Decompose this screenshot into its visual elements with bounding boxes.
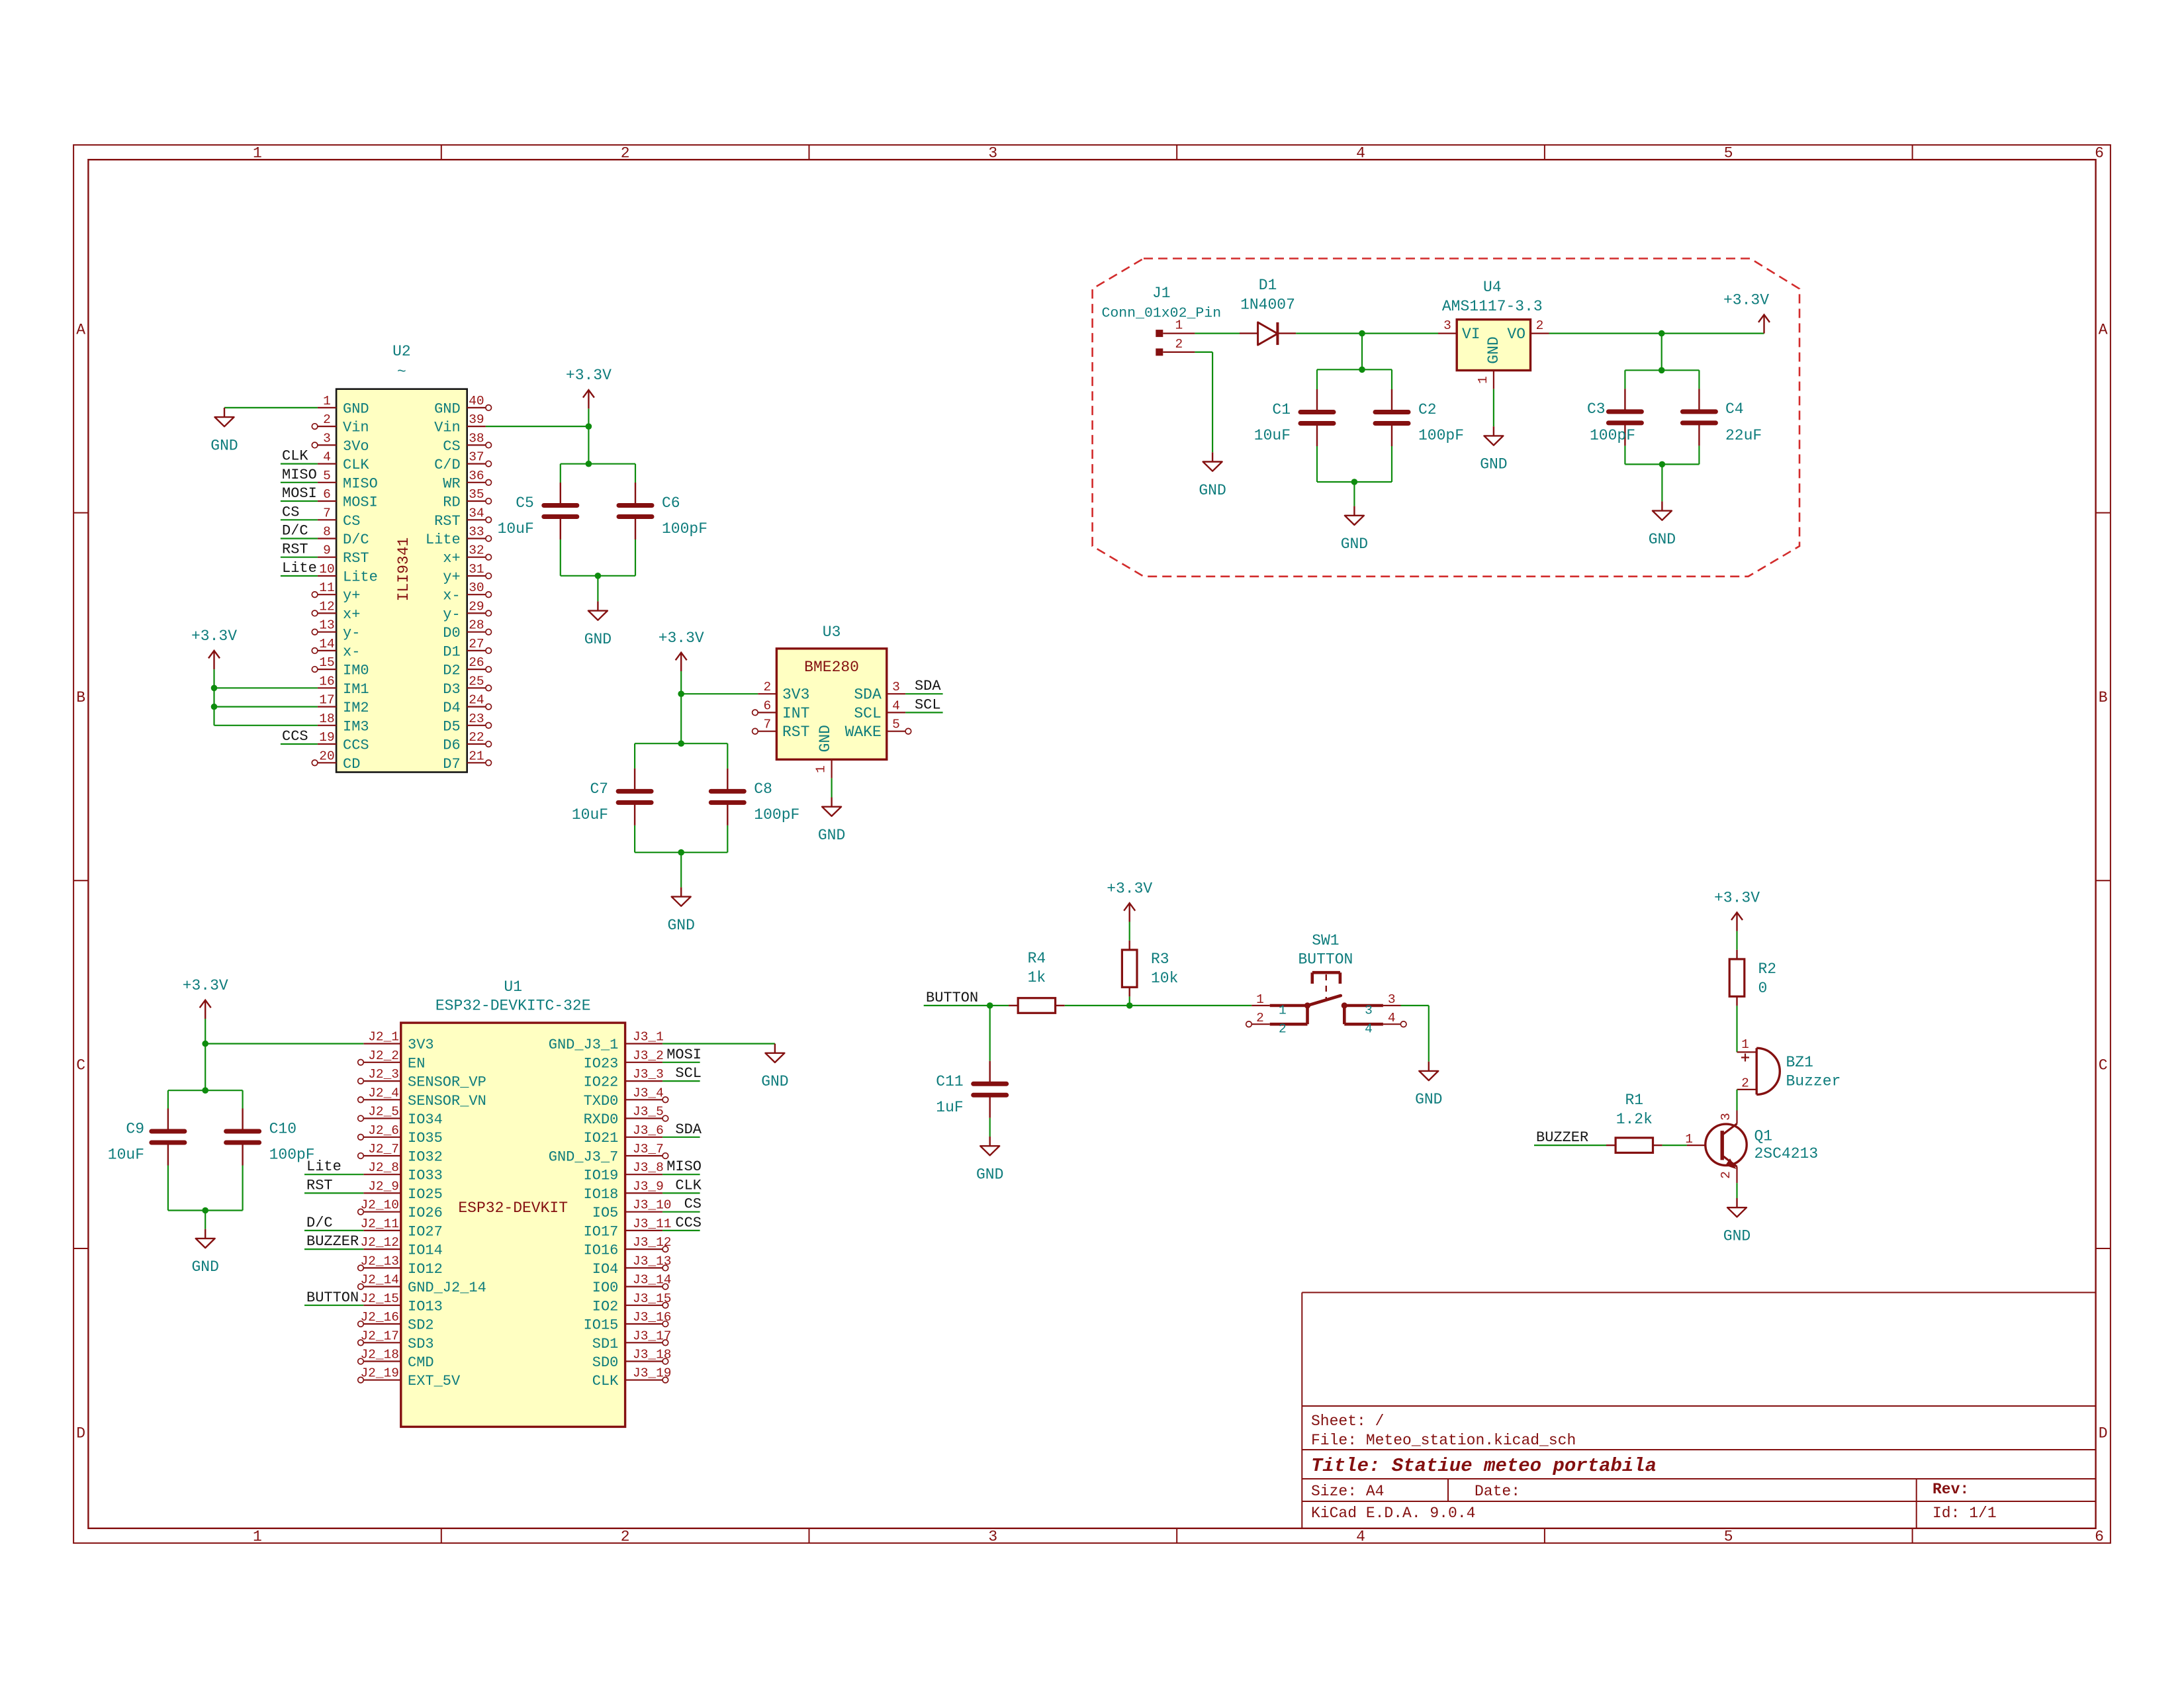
net label CLK — [282, 448, 308, 465]
svg-text:CD: CD — [343, 756, 360, 773]
U2 pin 22 D6 — [443, 730, 491, 754]
svg-text:4: 4 — [1365, 1022, 1373, 1037]
C8 reference text — [754, 780, 772, 798]
svg-text:INT: INT — [782, 705, 809, 722]
C3 reference text — [1587, 400, 1606, 418]
U4 pin 3 VI — [1438, 318, 1457, 334]
wire IM3 — [214, 688, 318, 726]
svg-text:1: 1 — [253, 1528, 262, 1546]
svg-text:GND: GND — [976, 1166, 1003, 1184]
svg-text:0: 0 — [1758, 980, 1768, 997]
svg-text:MISO: MISO — [343, 475, 378, 492]
wire BUZZER label stub — [1534, 1145, 1606, 1146]
C4 reference text — [1725, 400, 1744, 418]
U2 pin 5 MISO — [318, 469, 378, 492]
R4 reference text — [1028, 950, 1046, 967]
wire D1 to U4 — [1296, 333, 1438, 334]
svg-text:CLK: CLK — [592, 1373, 619, 1389]
wire C4 top leg — [1698, 370, 1700, 389]
wire R2 top — [1736, 931, 1737, 950]
svg-text:10uF: 10uF — [1254, 427, 1291, 444]
svg-text:IO34: IO34 — [408, 1111, 443, 1128]
svg-text:30: 30 — [469, 581, 484, 595]
svg-text:IO22: IO22 — [584, 1074, 619, 1091]
svg-text:7: 7 — [323, 506, 331, 520]
BZ1 reference text — [1786, 1054, 1813, 1071]
svg-text:3: 3 — [988, 145, 997, 162]
svg-text:Lite: Lite — [426, 532, 461, 548]
wire J1 pin2 to GND — [1195, 352, 1212, 452]
U2 pin 10 Lite — [318, 562, 378, 586]
svg-text:28: 28 — [469, 618, 484, 633]
junction C9C10 bottom — [202, 1207, 208, 1214]
svg-text:J3_6: J3_6 — [633, 1123, 664, 1138]
resistor R4 — [1009, 998, 1065, 1013]
svg-text:3: 3 — [1365, 1004, 1373, 1018]
capacitor C2 — [1375, 389, 1408, 446]
svg-text:J2_8: J2_8 — [368, 1160, 399, 1175]
resistor R3 — [1122, 941, 1137, 997]
U1 pin J3_3 IO22 — [584, 1067, 664, 1091]
svg-text:IM1: IM1 — [343, 681, 369, 698]
svg-text:SCL: SCL — [675, 1065, 702, 1082]
switch SW1 — [1246, 972, 1406, 1027]
power symbol +3.3V U1 — [183, 977, 228, 1019]
svg-text:1: 1 — [1741, 1037, 1749, 1052]
wire C5C6 top rail — [561, 463, 635, 465]
U2 pin 14 x- — [312, 637, 360, 661]
svg-text:BUTTON: BUTTON — [306, 1289, 359, 1306]
svg-text:40: 40 — [469, 394, 484, 408]
U1 pin J3_9 IO18 — [584, 1179, 664, 1203]
svg-text:3V3: 3V3 — [782, 686, 809, 704]
svg-text:SDA: SDA — [854, 686, 882, 704]
svg-text:CCS: CCS — [343, 737, 369, 754]
svg-text:CLK: CLK — [343, 457, 369, 473]
svg-text:~: ~ — [397, 363, 406, 381]
svg-text:y-: y- — [343, 625, 360, 641]
svg-text:GND: GND — [343, 400, 369, 417]
U1 pin J2_11 IO27 — [360, 1217, 442, 1241]
U2 pin 19 CCS — [318, 730, 369, 754]
net label CCS U1 — [675, 1215, 702, 1231]
junction R3 node — [1126, 1002, 1133, 1009]
wire C9C10 to GND — [205, 1211, 206, 1229]
svg-text:GND: GND — [434, 400, 461, 417]
U1 pin J3_7 GND_J3_7 — [549, 1142, 668, 1166]
wire C3C4 top rail — [1625, 369, 1699, 371]
svg-text:TXD0: TXD0 — [584, 1093, 619, 1109]
capacitor C7 — [618, 769, 651, 825]
svg-text:J2_2: J2_2 — [368, 1049, 399, 1063]
svg-text:SENSOR_VP: SENSOR_VP — [408, 1074, 486, 1091]
U3 pin 4 SCL — [854, 698, 905, 722]
capacitor C8 — [711, 769, 744, 825]
svg-text:18: 18 — [319, 712, 334, 726]
svg-text:10uF: 10uF — [498, 520, 534, 538]
svg-text:J2_4: J2_4 — [368, 1086, 399, 1100]
wire C11 top — [989, 1006, 991, 1061]
svg-text:U4: U4 — [1483, 279, 1502, 296]
U2 pin 12 x+ — [312, 599, 360, 623]
wire C7C8 top rail — [635, 743, 727, 744]
net label MISO U1 — [666, 1158, 702, 1175]
BZ1 pin numbers — [1741, 1037, 1749, 1091]
svg-text:SCL: SCL — [854, 705, 881, 722]
wire 3V3 down to C7C8 — [680, 694, 682, 743]
svg-text:23: 23 — [469, 712, 484, 726]
svg-text:39: 39 — [469, 412, 484, 427]
svg-text:6: 6 — [2095, 1528, 2104, 1546]
svg-text:Rev:: Rev: — [1933, 1481, 1969, 1498]
net label SCL U3 — [915, 696, 941, 713]
svg-text:R1: R1 — [1625, 1092, 1643, 1109]
svg-text:20: 20 — [319, 749, 334, 763]
net label D/C U1 — [306, 1215, 333, 1231]
svg-text:WR: WR — [443, 475, 460, 492]
SW1 reference text — [1312, 932, 1339, 949]
svg-text:D5: D5 — [443, 718, 460, 735]
svg-text:A: A — [2099, 321, 2108, 338]
U2 pin 1 GND — [318, 394, 369, 418]
wire C2 bottom leg — [1391, 446, 1392, 482]
junction Vin node — [586, 423, 592, 430]
ground C1C2 — [1341, 506, 1368, 553]
U1 pin J2_12 IO14 — [360, 1235, 442, 1259]
U2 pin 18 IM3 — [318, 712, 369, 735]
svg-text:IO32: IO32 — [408, 1149, 443, 1166]
wire C7C8 to GND — [680, 853, 682, 888]
svg-text:KiCad E.D.A. 9.0.4: KiCad E.D.A. 9.0.4 — [1311, 1505, 1475, 1522]
svg-text:CS: CS — [282, 504, 299, 520]
svg-text:RST: RST — [434, 513, 461, 530]
svg-text:+3.3V: +3.3V — [1723, 291, 1769, 308]
wire U4 pin1 to GND — [1493, 389, 1494, 427]
svg-text:U1: U1 — [504, 978, 522, 996]
svg-text:GND: GND — [818, 827, 845, 844]
svg-text:EXT_5V: EXT_5V — [408, 1373, 461, 1389]
wire label Lite U1 J2_8 — [304, 1174, 363, 1175]
svg-text:B: B — [2099, 689, 2108, 706]
net label MOSI — [282, 485, 317, 502]
svg-text:D/C: D/C — [306, 1215, 333, 1231]
svg-text:J2_10: J2_10 — [360, 1198, 399, 1213]
C11 value text — [936, 1099, 963, 1116]
svg-text:CS: CS — [684, 1196, 702, 1213]
U3 pin 3 SDA — [854, 680, 905, 704]
resistor R2 — [1729, 950, 1745, 1006]
power supply section dashed outline — [1093, 259, 1799, 577]
wire label MOSI U1 J3_2 — [662, 1062, 700, 1063]
svg-text:5: 5 — [1724, 145, 1733, 162]
svg-text:IO14: IO14 — [408, 1243, 443, 1259]
svg-text:D: D — [76, 1425, 85, 1442]
capacitor C6 — [619, 483, 652, 539]
title block kicad text — [1311, 1505, 1475, 1522]
svg-text:J2_9: J2_9 — [368, 1179, 399, 1194]
U1 pin J3_16 IO15 — [584, 1310, 672, 1334]
Q1 pin numbers — [1685, 1113, 1733, 1179]
svg-text:2: 2 — [1279, 1022, 1287, 1037]
junction C1C2 bottom rail — [1351, 479, 1358, 485]
svg-text:6: 6 — [763, 698, 771, 713]
svg-text:SDA: SDA — [675, 1121, 702, 1138]
SW1 pin names — [1279, 1004, 1373, 1037]
svg-text:J2_3: J2_3 — [368, 1067, 399, 1082]
svg-text:26: 26 — [469, 655, 484, 670]
svg-text:D1: D1 — [443, 643, 460, 660]
net label D/C — [282, 523, 308, 539]
svg-text:2: 2 — [1741, 1076, 1749, 1091]
svg-text:4: 4 — [1388, 1011, 1396, 1025]
svg-text:GND: GND — [1723, 1228, 1751, 1245]
Q1 value text — [1754, 1145, 1819, 1162]
connector J1 — [1156, 318, 1195, 356]
svg-text:1: 1 — [1476, 376, 1490, 384]
svg-text:32: 32 — [469, 543, 484, 558]
svg-text:3: 3 — [1388, 992, 1396, 1007]
wire U4 VO to +3.3V — [1549, 333, 1764, 334]
net label Lite — [282, 560, 317, 577]
svg-text:+3.3V: +3.3V — [191, 628, 237, 645]
U3 reference text — [823, 624, 841, 641]
title block id text — [1933, 1505, 1997, 1522]
U2 pin 9 RST — [318, 543, 369, 567]
svg-text:GND: GND — [584, 631, 612, 648]
U2 pin 37 C/D — [434, 450, 491, 474]
U2 pin 15 IM0 — [312, 655, 369, 679]
svg-text:1k: 1k — [1028, 969, 1046, 986]
power symbol +3.3V U3 — [659, 630, 704, 671]
U2 pin 35 RD — [443, 487, 491, 511]
U3 GND pin name rotated — [817, 725, 834, 752]
svg-text:1N4007: 1N4007 — [1240, 297, 1295, 314]
U4 value text — [1442, 298, 1543, 315]
U2 pin 21 D7 — [443, 749, 491, 773]
svg-text:J3_5: J3_5 — [633, 1105, 664, 1119]
ground C7C8 — [667, 887, 694, 934]
U3 pin 5 WAKE — [845, 718, 911, 741]
U3 pin 1 GND — [814, 759, 832, 778]
svg-text:J2_5: J2_5 — [368, 1105, 399, 1119]
U1 pin J3_19 CLK — [592, 1366, 672, 1390]
power symbol +3.3V R2 — [1714, 889, 1760, 931]
wire C3C4 to GND — [1661, 464, 1662, 501]
svg-text:IM3: IM3 — [343, 718, 369, 735]
wire C9 bottom leg — [167, 1166, 169, 1211]
wire label RST U1 J2_9 — [304, 1192, 363, 1194]
svg-text:MOSI: MOSI — [343, 494, 378, 511]
svg-text:D2: D2 — [443, 663, 460, 679]
title block title text — [1311, 1455, 1657, 1477]
D1 value text — [1240, 297, 1295, 314]
microcontroller U1 body — [401, 1023, 625, 1427]
svg-text:4: 4 — [323, 450, 331, 465]
svg-text:IO25: IO25 — [408, 1186, 443, 1203]
svg-text:37: 37 — [469, 450, 484, 465]
wire U1 GND_J3_1 — [662, 1043, 775, 1044]
wire C10 bottom leg — [242, 1166, 244, 1211]
svg-text:Conn_01x02_Pin: Conn_01x02_Pin — [1101, 306, 1221, 322]
C3 value text — [1590, 427, 1635, 444]
svg-text:BUTTON: BUTTON — [926, 990, 978, 1006]
SW1 pin numbers — [1256, 992, 1395, 1025]
resistor R1 — [1606, 1138, 1662, 1153]
svg-text:38: 38 — [469, 431, 484, 445]
U2 pin 36 WR — [443, 469, 491, 492]
wire C3C4 bottom rail — [1625, 463, 1699, 465]
R2 value text — [1758, 980, 1768, 997]
svg-text:RST: RST — [306, 1177, 333, 1194]
svg-text:CCS: CCS — [675, 1215, 702, 1231]
svg-text:9: 9 — [323, 543, 331, 558]
U2 pin 28 D0 — [443, 618, 491, 642]
svg-text:+3.3V: +3.3V — [183, 977, 228, 994]
svg-text:14: 14 — [319, 637, 334, 651]
svg-text:RST: RST — [343, 550, 369, 567]
svg-text:1: 1 — [1685, 1132, 1693, 1147]
svg-text:GND: GND — [1485, 336, 1502, 363]
svg-text:BUZZER: BUZZER — [1536, 1129, 1588, 1146]
C1 reference text — [1272, 401, 1291, 418]
wire R2 to BZ1 — [1736, 1006, 1737, 1052]
ground U1 J3_1 — [761, 1044, 788, 1091]
net label MISO — [282, 467, 317, 483]
svg-text:4: 4 — [1356, 145, 1365, 162]
svg-text:File: Meteo_station.kicad_sch: File: Meteo_station.kicad_sch — [1311, 1432, 1576, 1449]
svg-text:2: 2 — [1536, 318, 1544, 333]
wire BUTTON label stub — [924, 1005, 990, 1006]
wire label CS U2 pin 7 — [281, 519, 318, 520]
svg-text:1: 1 — [323, 394, 331, 408]
U1 pin J2_6 IO35 — [358, 1123, 443, 1147]
junction U1 3V3 — [202, 1041, 208, 1047]
C11 reference text — [936, 1073, 963, 1090]
svg-text:CS: CS — [343, 513, 360, 530]
wire label CLK U1 J3_9 — [662, 1192, 700, 1194]
svg-text:GND: GND — [1199, 482, 1226, 499]
C5 value text — [498, 520, 534, 538]
svg-text:+3.3V: +3.3V — [1714, 889, 1760, 906]
junction D1/C1 node — [1359, 330, 1365, 337]
svg-text:ESP32-DEVKIT: ESP32-DEVKIT — [458, 1199, 568, 1217]
svg-text:AMS1117-3.3: AMS1117-3.3 — [1442, 298, 1543, 315]
svg-text:10: 10 — [319, 562, 334, 577]
wire C7 top leg — [634, 743, 635, 769]
wire C2 top leg — [1391, 369, 1392, 389]
svg-text:J2_17: J2_17 — [360, 1329, 399, 1343]
svg-text:C3: C3 — [1587, 400, 1606, 418]
U1 pin J2_14 GND_J2_14 — [358, 1273, 486, 1297]
net label BUTTON — [926, 990, 978, 1006]
svg-text:SDA: SDA — [915, 678, 941, 694]
wire U1 3V3 — [205, 1043, 363, 1044]
U2 pin 17 IM2 — [318, 693, 369, 717]
power symbol +3.3V R3 — [1107, 880, 1152, 921]
svg-text:33: 33 — [469, 525, 484, 539]
C2 reference text — [1418, 401, 1437, 418]
R2 reference text — [1758, 961, 1777, 978]
svg-text:IO17: IO17 — [584, 1223, 619, 1240]
U4 reference text — [1483, 279, 1502, 296]
wire C4 bottom leg — [1698, 445, 1700, 464]
svg-text:IO23: IO23 — [584, 1055, 619, 1072]
U2 pin 6 MOSI — [318, 487, 378, 511]
svg-text:34: 34 — [469, 506, 484, 520]
wire C5C6 bottom rail — [561, 575, 635, 577]
wire label Lite U2 pin 10 — [281, 575, 318, 577]
svg-text:22: 22 — [469, 730, 484, 745]
svg-text:10uF: 10uF — [572, 806, 608, 823]
U1 pin J3_4 TXD0 — [584, 1086, 668, 1109]
svg-text:SENSOR_VN: SENSOR_VN — [408, 1093, 486, 1109]
U1 pin J3_17 SD1 — [592, 1329, 672, 1352]
svg-text:+3.3V: +3.3V — [659, 630, 704, 647]
wire R3 to SW1 — [1130, 1005, 1252, 1006]
wire IM to +3.3V — [213, 669, 214, 688]
wire BZ1 to Q1 collector — [1736, 1090, 1737, 1111]
wire to R4 — [990, 1005, 1009, 1006]
wire SW1 to GND — [1401, 1006, 1429, 1062]
svg-text:1: 1 — [253, 145, 262, 162]
svg-text:IO0: IO0 — [592, 1280, 619, 1296]
transistor Q1 — [1687, 1111, 1747, 1184]
U2 pin 3 3Vo — [312, 431, 369, 455]
svg-text:2: 2 — [323, 412, 331, 427]
svg-text:J3_12: J3_12 — [633, 1235, 672, 1250]
svg-text:J3_18: J3_18 — [633, 1348, 672, 1362]
svg-text:y+: y+ — [343, 588, 360, 604]
svg-text:12: 12 — [319, 599, 334, 614]
power symbol +3.3V power out — [1723, 291, 1770, 333]
U1 pin J2_17 SD3 — [358, 1329, 434, 1352]
svg-text:R2: R2 — [1758, 961, 1777, 978]
J1 reference text — [1152, 285, 1171, 302]
wire label MISO U2 pin 5 — [281, 482, 318, 483]
svg-text:J2_1: J2_1 — [368, 1030, 399, 1045]
svg-text:x-: x- — [343, 643, 360, 660]
net label BUTTON U1 — [306, 1289, 359, 1306]
svg-text:100pF: 100pF — [662, 520, 707, 538]
wire C9C10 bottom rail — [168, 1209, 243, 1211]
C10 reference text — [269, 1121, 296, 1138]
wire C6 top leg — [635, 464, 636, 483]
svg-text:D0: D0 — [443, 625, 460, 641]
svg-text:15: 15 — [319, 655, 334, 670]
svg-text:IO18: IO18 — [584, 1186, 619, 1203]
svg-text:C11: C11 — [936, 1073, 963, 1090]
svg-text:2SC4213: 2SC4213 — [1754, 1145, 1819, 1162]
wire tap to C1C2 rail — [1361, 334, 1363, 370]
svg-text:2: 2 — [621, 145, 630, 162]
U1 pin J3_5 RXD0 — [584, 1105, 668, 1129]
wire 3V3 up — [205, 1019, 206, 1044]
ground U4 — [1480, 426, 1507, 473]
svg-text:2: 2 — [1719, 1171, 1733, 1179]
net label SCL U1 — [675, 1065, 702, 1082]
svg-text:RXD0: RXD0 — [584, 1111, 619, 1128]
wire C6 bottom leg — [635, 539, 636, 576]
svg-text:C6: C6 — [662, 494, 680, 512]
svg-text:CCS: CCS — [282, 728, 308, 745]
U2 pin 31 y+ — [443, 562, 491, 586]
wire Q1 emitter to GND — [1736, 1183, 1737, 1198]
svg-text:GND: GND — [191, 1258, 218, 1276]
U2 pin 38 CS — [443, 431, 491, 455]
wire C11 bottom — [989, 1118, 991, 1137]
junction VO/C3 node — [1659, 330, 1665, 337]
wire J1 pin1 to D1 — [1195, 333, 1240, 334]
